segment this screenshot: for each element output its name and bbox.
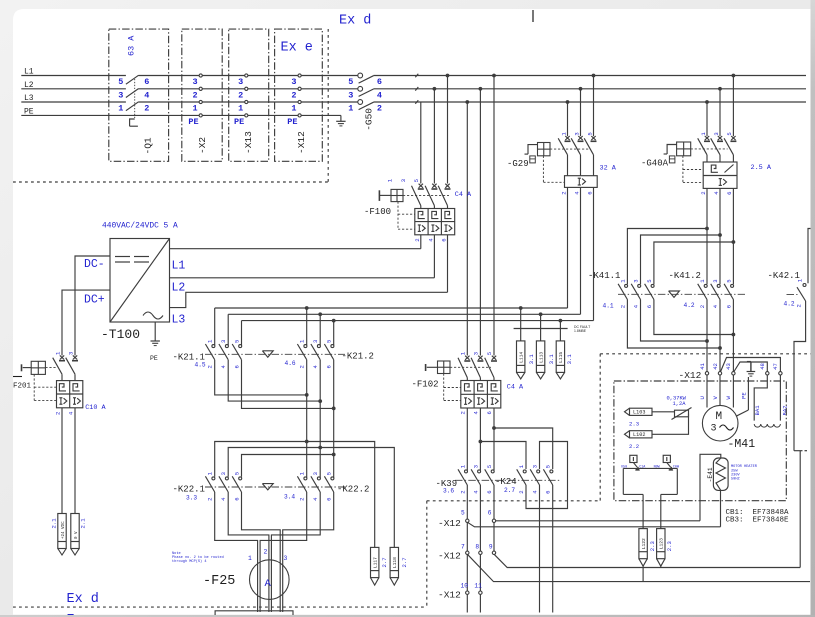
- bridge X12:43 to X12:48: [734, 362, 767, 372]
- T100 AC symbol: [143, 312, 163, 319]
- svg-text:3: 3: [348, 90, 353, 100]
- svg-text:-X12: -X12: [438, 590, 461, 601]
- wire W to motor: [732, 375, 734, 408]
- G29 pole 1 clamp: [565, 136, 569, 140]
- wire F100 out 2 to bus L2: [433, 235, 435, 278]
- terminal X12:47: [779, 372, 782, 375]
- svg-text:2: 2: [560, 191, 567, 194]
- svg-text:3: 3: [712, 279, 719, 282]
- svg-text:6: 6: [586, 191, 593, 194]
- G40A pole 1 blade: [698, 138, 707, 155]
- thermostat switch 1: [630, 455, 637, 462]
- svg-text:-K42.1: -K42.1: [768, 271, 800, 281]
- wire K21.2 out 3: [333, 360, 335, 455]
- contactor K39 pole 2: [478, 470, 481, 473]
- wire K22 phase2 collect: [228, 492, 269, 612]
- svg-text:L102: L102: [633, 432, 645, 438]
- wire drop to F102 pole 1: [465, 100, 469, 104]
- svg-text:5: 5: [486, 465, 493, 468]
- svg-text:DC+: DC+: [84, 294, 105, 307]
- contactor K21.2 pole 3: [333, 321, 335, 346]
- Q1 linkage: [134, 79, 136, 119]
- power supply T100 box: [110, 239, 170, 323]
- ferrule L113: [536, 341, 544, 373]
- svg-text:L115: L115: [558, 352, 564, 363]
- contactor K22.2 pole 1: [306, 442, 308, 478]
- terminal X12:7: [466, 551, 469, 554]
- terminal X12:9: [492, 551, 495, 554]
- wire K22 phase1 collect: [215, 492, 258, 612]
- svg-text:4.2: 4.2: [784, 300, 795, 307]
- svg-text:4: 4: [144, 90, 149, 100]
- terminal strip -X2 enclosure: [182, 29, 222, 161]
- terminal -X13:PE: [245, 114, 248, 117]
- G40A pole 2 blade: [711, 138, 720, 155]
- svg-text:C10 A: C10 A: [85, 404, 106, 412]
- svg-text:6: 6: [545, 490, 552, 493]
- wire G29 out 3: [593, 187, 595, 320]
- svg-text:2.3: 2.3: [649, 541, 656, 551]
- svg-text:6: 6: [488, 510, 492, 517]
- wire L3 rail: [21, 101, 126, 103]
- wire K41.1 out 2 parallel: [641, 300, 708, 342]
- heater E41 element: [713, 458, 728, 490]
- svg-text:1: 1: [193, 104, 198, 114]
- contactor K41.2 pole 1: [704, 284, 707, 287]
- wire feed K41.1 pole1: [627, 229, 707, 285]
- terminal X12:8: [479, 551, 482, 554]
- bus L1 from T100: [170, 248, 421, 250]
- svg-text:6: 6: [486, 411, 493, 414]
- svg-text:L2: L2: [172, 282, 186, 295]
- svg-text:-G40A: -G40A: [641, 158, 669, 168]
- svg-text:Ex d: Ex d: [339, 14, 371, 29]
- svg-text:C4 A: C4 A: [455, 191, 472, 199]
- F100 pole 3 blade: [438, 186, 447, 206]
- ferrule L118: [390, 547, 398, 577]
- wire sensor to L102: [652, 414, 689, 435]
- window right band: [811, 0, 815, 617]
- svg-text:1: 1: [118, 104, 123, 114]
- F100 pole 2 clamp: [432, 184, 436, 188]
- svg-text:2: 2: [207, 497, 214, 500]
- wire X12:9 to L123: [494, 554, 800, 567]
- K41 actuator link: [618, 293, 745, 295]
- wire DC- from T100: [75, 256, 110, 356]
- overload body G29: [565, 176, 598, 188]
- svg-text:440VAC/24VDC 5 A: 440VAC/24VDC 5 A: [102, 222, 178, 231]
- breaker F100 body: [415, 209, 455, 235]
- svg-text:3: 3: [291, 77, 296, 87]
- svg-text:-Q1: -Q1: [143, 137, 154, 154]
- svg-text:-X2: -X2: [197, 137, 208, 154]
- svg-text:2: 2: [238, 90, 243, 100]
- svg-text:PE: PE: [287, 117, 297, 127]
- wire K21.2 out 1: [306, 360, 308, 442]
- contactor K41.1 pole 2: [638, 284, 641, 287]
- terminal X12:5: [466, 519, 469, 522]
- ferrule L123: [657, 529, 665, 559]
- svg-text:L123: L123: [659, 538, 665, 549]
- wire drop to F100 pole 2: [433, 87, 437, 91]
- wire branch to L117: [307, 442, 375, 548]
- terminal -X2:3: [199, 74, 202, 77]
- switch G50 contact 1/2: [358, 100, 363, 105]
- svg-text:3: 3: [220, 472, 227, 475]
- svg-text:5: 5: [725, 279, 732, 282]
- svg-text:A: A: [265, 578, 272, 590]
- wire right riser to X12:9 line: [799, 451, 801, 568]
- K21 actuator link: [205, 353, 345, 355]
- svg-text:U: U: [699, 396, 706, 399]
- svg-text:2: 2: [291, 90, 296, 100]
- svg-text:2.2: 2.2: [629, 443, 639, 450]
- wire feed K41.1 pole3: [654, 242, 734, 284]
- svg-text:PE: PE: [188, 117, 198, 127]
- G29 pole 2 clamp: [578, 136, 582, 140]
- svg-text:-T100: -T100: [101, 327, 140, 342]
- K21 mirror-contact triangle: [262, 351, 273, 357]
- svg-text:-K22.2: -K22.2: [337, 485, 369, 495]
- svg-text:4.1: 4.1: [603, 303, 614, 310]
- svg-text:3: 3: [68, 352, 75, 355]
- svg-text:2.5 A: 2.5 A: [751, 164, 772, 172]
- G29 pole 1 blade: [558, 138, 567, 155]
- connector stub 2: [540, 314, 542, 341]
- svg-text:43: 43: [725, 363, 732, 370]
- wire K24 series link: [526, 442, 568, 509]
- svg-text:-K22.1: -K22.1: [173, 485, 205, 495]
- wire feed K22.1 pole1: [305, 440, 309, 444]
- wire drop to G40A pole 1: [705, 100, 709, 104]
- svg-text:2: 2: [518, 490, 525, 493]
- switch G50 contact 5/6: [358, 73, 363, 78]
- wire K41.2 out to X12:41: [706, 300, 708, 372]
- ferrule +24 VDC: [58, 514, 66, 549]
- bus L3 from T100: [170, 292, 448, 307]
- svg-text:5: 5: [461, 510, 465, 517]
- wire drop to F100 pole 3: [446, 74, 450, 78]
- svg-text:3: 3: [532, 465, 539, 468]
- zone boundary dashed (bottom): [13, 606, 427, 608]
- svg-text:3: 3: [238, 77, 243, 87]
- breaker F100 operator: [391, 189, 403, 201]
- svg-text:2: 2: [459, 411, 466, 414]
- terminal -X12:3: [298, 74, 301, 77]
- svg-text:3: 3: [633, 279, 640, 282]
- svg-text:PE: PE: [234, 117, 244, 127]
- svg-text:47: 47: [772, 363, 779, 370]
- current transformer F25: [249, 560, 289, 600]
- svg-text:PE: PE: [740, 392, 747, 399]
- svg-text:M: M: [716, 411, 723, 423]
- svg-text:2: 2: [264, 549, 268, 556]
- wire F102 out 1: [466, 408, 468, 470]
- svg-text:9: 9: [489, 544, 493, 551]
- svg-text:L3: L3: [172, 314, 186, 327]
- svg-text:6: 6: [726, 191, 733, 194]
- T100 DC symbol: [115, 256, 130, 258]
- F102 actuator dashed link: [450, 366, 491, 368]
- wire K42.1 out: [794, 301, 806, 451]
- svg-text:through MCP(S) 4: through MCP(S) 4: [172, 559, 207, 564]
- svg-text:-K24: -K24: [495, 477, 517, 487]
- bus wire phase3 (G29 out): [242, 320, 594, 322]
- svg-text:3.1: 3.1: [548, 354, 555, 365]
- terminal -X2:2: [199, 87, 202, 90]
- wire K21.1 out 1: [215, 360, 307, 395]
- svg-text:32 A: 32 A: [600, 164, 617, 172]
- svg-text:3: 3: [713, 132, 720, 135]
- wire heater bottom lead: [720, 490, 722, 526]
- svg-text:L117: L117: [373, 557, 379, 568]
- wire K39 out 3: [493, 485, 495, 554]
- contactor K41.1 pole 1: [625, 284, 628, 287]
- svg-text:7: 7: [461, 544, 465, 551]
- svg-text:3: 3: [193, 77, 198, 87]
- breaker F201 body: [57, 381, 83, 408]
- svg-text:1: 1: [291, 104, 296, 114]
- wire X12:5 to heater bottom: [467, 522, 720, 527]
- wire to BA1: [754, 375, 767, 421]
- wire K21.2 out 2: [319, 360, 321, 448]
- svg-text:3.6: 3.6: [443, 488, 454, 495]
- svg-text:L118: L118: [392, 557, 398, 568]
- svg-text:5: 5: [586, 132, 593, 135]
- svg-text:2: 2: [459, 490, 466, 493]
- contactor K22.1 pole 1: [212, 477, 215, 480]
- svg-text:2: 2: [796, 304, 803, 307]
- F102 pole 1 clamp: [465, 356, 469, 360]
- svg-text:CB3: EF73848E: CB3: EF73848E: [726, 517, 790, 525]
- svg-text:3: 3: [472, 352, 479, 355]
- wire X12:6 to heater top: [496, 520, 700, 522]
- svg-text:Ex e: Ex e: [281, 41, 313, 56]
- svg-text:L122: L122: [641, 538, 647, 549]
- ground symbol (PE rail): [340, 115, 342, 121]
- wire G29 out 2: [580, 187, 582, 314]
- svg-text:1: 1: [248, 555, 252, 562]
- breaker F201 operator: [31, 361, 45, 374]
- wire PE to motor: [747, 377, 749, 410]
- svg-text:5: 5: [234, 340, 241, 343]
- device box below F25: [215, 611, 293, 615]
- svg-text:5: 5: [646, 279, 653, 282]
- F100 actuator dashed link: [403, 194, 449, 196]
- G40A pole 2 clamp: [718, 136, 722, 140]
- contactor K22.1 pole 3: [239, 477, 242, 480]
- switch G50 contact 3/4: [358, 86, 363, 91]
- ferrule L122: [639, 529, 647, 559]
- svg-text:3.4: 3.4: [284, 493, 295, 500]
- G40A pole 3 clamp: [731, 136, 735, 140]
- terminal -X12:1: [298, 100, 301, 103]
- svg-text:6: 6: [377, 77, 382, 87]
- wire K22 phase3 collect: [242, 492, 281, 612]
- svg-text:2.7: 2.7: [504, 487, 515, 494]
- contactor K22.1 pole 2: [225, 477, 228, 480]
- contactor K39 pole 1: [465, 470, 468, 473]
- wire PE rail: [21, 114, 341, 116]
- wire drop to F102 pole 2: [479, 87, 483, 91]
- F201 pole 1 blade: [53, 358, 62, 375]
- svg-text:U50: U50: [621, 466, 627, 470]
- wire X12:7 to L122: [467, 554, 810, 581]
- wire F100 out 1 to bus L1: [420, 235, 422, 249]
- svg-text:5: 5: [118, 77, 123, 87]
- svg-text:2: 2: [55, 412, 62, 415]
- starter G40A operator: [677, 142, 691, 156]
- terminal -X13:2: [245, 87, 248, 90]
- svg-text:2: 2: [193, 90, 198, 100]
- contactor K42.1 pole 1: [803, 284, 806, 287]
- thermostat loop wiring: [623, 467, 677, 469]
- wire G29 out 1: [567, 187, 569, 308]
- contactor K21.2 pole 2: [319, 314, 321, 345]
- svg-text:6: 6: [441, 238, 448, 241]
- motor enclosure dash-dot box: [614, 381, 786, 501]
- contactor K41.2 pole 2: [717, 284, 720, 287]
- svg-text:2: 2: [144, 104, 149, 114]
- F102 pole 1 blade: [458, 358, 467, 378]
- svg-text:2.1: 2.1: [51, 518, 58, 529]
- svg-text:5: 5: [413, 179, 420, 182]
- svg-text:2: 2: [299, 365, 306, 368]
- ferrule L114: [517, 341, 525, 373]
- svg-text:C1A: C1A: [639, 466, 646, 470]
- svg-text:4.2: 4.2: [684, 302, 695, 309]
- svg-text:5: 5: [545, 465, 552, 468]
- contactor K39 pole 3: [491, 470, 494, 473]
- F102 pole 2 clamp: [478, 356, 482, 360]
- svg-text:5: 5: [348, 77, 353, 87]
- svg-text:L103: L103: [633, 410, 645, 416]
- wire to L122: [642, 494, 644, 528]
- svg-text:5: 5: [326, 340, 333, 343]
- ferrule L102: [630, 431, 653, 438]
- K22 actuator link: [205, 486, 345, 488]
- wire drop to F100 pole 1: [420, 102, 422, 184]
- wire branch to L118: [320, 448, 394, 548]
- svg-text:L1: L1: [24, 68, 34, 77]
- wire to BA2: [779, 375, 781, 421]
- ferrule L117: [371, 547, 379, 577]
- K22 mirror-contact triangle: [262, 484, 273, 490]
- wire drop to G29 pole 1: [566, 100, 570, 104]
- K41 mirror-contact triangle: [669, 291, 680, 297]
- F201 pole 2 blade: [66, 358, 75, 375]
- contactor K24 pole 1: [523, 470, 526, 473]
- wire V to motor: [719, 375, 721, 406]
- svg-text:2.3: 2.3: [666, 541, 673, 551]
- contactor K21.1 pole 1: [214, 308, 216, 345]
- K39/K24 actuator link: [455, 479, 560, 481]
- terminal X12:41: [705, 372, 708, 375]
- svg-text:11: 11: [474, 583, 482, 590]
- contactor K24 pole 3: [550, 470, 553, 473]
- terminal strip -X13 enclosure: [229, 29, 269, 161]
- wire drop to G40A pole 2: [718, 87, 722, 91]
- ferrule 0 V: [71, 514, 79, 549]
- G29 pole 3 blade: [584, 138, 593, 155]
- svg-text:0 V: 0 V: [75, 531, 79, 539]
- svg-text:1: 1: [348, 104, 353, 114]
- svg-text:MOTOR HEATER: MOTOR HEATER: [731, 465, 758, 469]
- terminal -X13:1: [245, 100, 248, 103]
- svg-text:1,2A: 1,2A: [673, 401, 687, 407]
- svg-text:-F25: -F25: [203, 574, 235, 589]
- svg-text:2: 2: [700, 191, 707, 194]
- wire L123 to X12:9 line: [660, 566, 662, 567]
- svg-text:41: 41: [699, 362, 706, 369]
- svg-text:3.3: 3.3: [186, 495, 197, 502]
- wire drop to F102 pole 3: [492, 74, 496, 78]
- svg-text:L3: L3: [24, 94, 34, 103]
- F100 pole 3 clamp: [445, 184, 449, 188]
- switch Q1 blade L1: [126, 75, 139, 84]
- wire K21.1 out 2: [228, 360, 320, 401]
- breaker G40A body: [703, 162, 737, 188]
- svg-text:8: 8: [475, 544, 479, 551]
- svg-text:4.6: 4.6: [285, 360, 296, 367]
- wire L2 rail: [21, 88, 126, 90]
- wire U to motor: [706, 375, 708, 408]
- breaker F102 body: [461, 381, 501, 409]
- svg-text:6: 6: [144, 77, 149, 87]
- F102 pole 3 clamp: [492, 356, 496, 360]
- svg-text:PE: PE: [24, 107, 34, 116]
- wire F102 out 3: [493, 408, 495, 470]
- svg-text:42: 42: [712, 363, 719, 370]
- bridge X12:42 to X12:47: [721, 358, 781, 372]
- svg-text:-F100: -F100: [364, 207, 391, 217]
- terminal X12:10: [466, 591, 469, 594]
- F201 pole 2 clamp: [73, 355, 77, 359]
- connector separator line: [514, 328, 568, 330]
- wire drop to G29 pole 3: [592, 74, 596, 78]
- F201 actuator dashed link: [45, 367, 56, 369]
- G29 actuator dashed link: [550, 148, 590, 150]
- svg-text:2.3: 2.3: [629, 420, 639, 427]
- svg-text:L113: L113: [538, 352, 544, 363]
- F201 pole 1 clamp: [60, 355, 64, 359]
- wire F201 out 1: [61, 408, 63, 514]
- wire drop to G40A pole 3: [732, 74, 736, 78]
- wire feed K22.1 pole3: [332, 453, 336, 457]
- wire K41.2 out to X12:42: [719, 300, 721, 372]
- page marker tick: [532, 10, 534, 22]
- motor M41 circle: [702, 405, 738, 441]
- wire K39 out 2: [479, 485, 481, 613]
- svg-text:10: 10: [461, 583, 469, 590]
- wire F201 out 2: [74, 408, 76, 514]
- svg-text:3: 3: [312, 340, 319, 343]
- terminal X12:43: [732, 372, 735, 375]
- svg-text:6: 6: [486, 490, 493, 493]
- svg-text:BA1: BA1: [754, 405, 761, 416]
- contactor K24 pole 2: [537, 470, 540, 473]
- switch Q1 blade L2: [126, 89, 139, 98]
- svg-text:3: 3: [220, 340, 227, 343]
- svg-text:3: 3: [118, 90, 123, 100]
- contactor K21.1 pole 2: [227, 314, 229, 345]
- wire K42 continuation stub: [794, 450, 803, 452]
- svg-text:6: 6: [234, 365, 241, 368]
- terminal X12:6: [492, 519, 495, 522]
- wire feed K24 pole1: [480, 442, 526, 470]
- window bottom band: [0, 615, 815, 617]
- zone boundary dashed (top): [13, 181, 328, 183]
